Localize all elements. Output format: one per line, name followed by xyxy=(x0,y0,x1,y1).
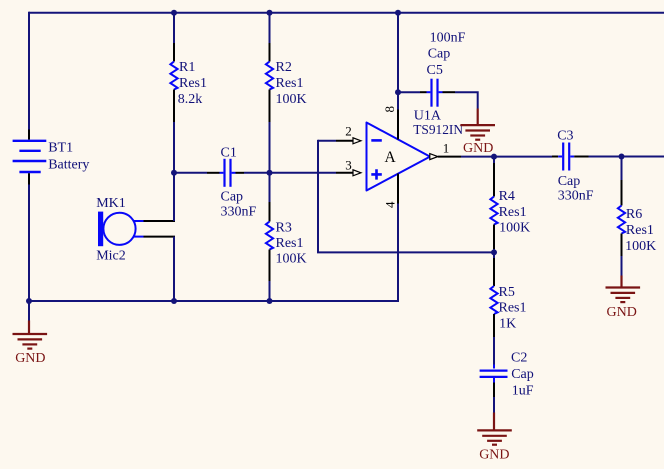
junction node C1 right (R2/R3) xyxy=(267,170,273,176)
wire output xyxy=(461,156,494,158)
svg-text:100K: 100K xyxy=(276,252,307,267)
wire node to right edge xyxy=(622,156,664,158)
wire C1 left xyxy=(174,172,207,174)
svg-text:330nF: 330nF xyxy=(558,189,594,204)
svg-text:R2: R2 xyxy=(276,60,292,75)
ground GND (battery, bottom-left) xyxy=(13,321,48,367)
pin 4 (V-) xyxy=(382,174,398,209)
resistor R4 xyxy=(490,163,497,249)
resistor R1 xyxy=(170,43,177,122)
svg-text:8.2k: 8.2k xyxy=(178,92,203,107)
wire pin3 from C1 node xyxy=(270,172,337,174)
svg-text:R6: R6 xyxy=(626,207,642,222)
junction top bus / pin8 xyxy=(395,10,401,16)
battery BT1 plates xyxy=(13,141,47,172)
junction R4 / R5 / feedback xyxy=(491,249,497,255)
junction top bus / R2 xyxy=(267,10,273,16)
wire left vertical lower xyxy=(28,185,30,321)
svg-text:330nF: 330nF xyxy=(221,204,257,219)
svg-text:A: A xyxy=(385,149,397,166)
junction pin8 / C5 xyxy=(395,89,401,95)
svg-text:GND: GND xyxy=(607,305,637,320)
capacitor C3 xyxy=(552,143,589,171)
svg-text:1: 1 xyxy=(443,140,450,155)
svg-text:100K: 100K xyxy=(276,92,307,107)
svg-text:Res1: Res1 xyxy=(276,76,304,91)
svg-text:R3: R3 xyxy=(276,221,292,236)
wire C2 to GND xyxy=(493,397,495,413)
resistor R3 xyxy=(266,202,273,281)
svg-text:GND: GND xyxy=(15,351,45,366)
svg-text:R5: R5 xyxy=(499,285,515,300)
wire C5 to GND corner xyxy=(455,91,478,108)
wire output to C3 xyxy=(494,156,552,158)
wire mic top to C1 node xyxy=(173,173,175,221)
svg-text:1uF: 1uF xyxy=(512,383,534,398)
svg-text:C5: C5 xyxy=(427,63,443,78)
battery BT1 pin top xyxy=(28,130,30,140)
svg-text:Cap: Cap xyxy=(511,367,534,382)
ground GND (C5) xyxy=(460,109,495,157)
junction bottom bus / R3 xyxy=(267,298,273,304)
wire R3 bottom xyxy=(269,281,271,301)
svg-text:Res1: Res1 xyxy=(626,223,654,238)
svg-text:R1: R1 xyxy=(179,60,195,75)
junction C3 / R6 node xyxy=(619,154,625,160)
resistor R6 xyxy=(618,180,625,256)
svg-text:C2: C2 xyxy=(511,350,527,365)
svg-text:Res1: Res1 xyxy=(499,301,527,316)
svg-text:Res1: Res1 xyxy=(179,76,207,91)
svg-text:1K: 1K xyxy=(499,317,516,332)
wire feedback horizontal xyxy=(317,251,494,253)
junction bottom bus / battery GND xyxy=(26,298,32,304)
svg-text:3: 3 xyxy=(345,158,352,173)
wire pin8 to top bus xyxy=(397,12,399,110)
pin 3 (non-inverting input) xyxy=(336,158,361,176)
svg-text:BT1: BT1 xyxy=(48,140,73,155)
svg-text:Cap: Cap xyxy=(221,190,244,205)
resistor R5 xyxy=(490,258,497,337)
svg-text:8: 8 xyxy=(382,106,397,113)
ground GND (C2) xyxy=(477,413,512,463)
svg-text:100K: 100K xyxy=(625,239,656,254)
wire mic bottom to bus xyxy=(173,237,175,301)
wire pin2 stub xyxy=(318,140,336,142)
svg-text:C3: C3 xyxy=(557,128,573,143)
pin 2 (inverting input) xyxy=(336,123,361,144)
svg-text:4: 4 xyxy=(382,201,397,208)
wire R5 top xyxy=(493,252,495,258)
svg-text:2: 2 xyxy=(345,123,352,138)
junction output node (R4/C3) xyxy=(491,154,497,160)
wire R4 bottom xyxy=(493,249,495,252)
resistor R2 xyxy=(266,43,273,122)
junction top bus / R1 xyxy=(171,10,177,16)
svg-text:Cap: Cap xyxy=(558,174,581,189)
wire R3 top xyxy=(269,173,271,202)
wire top bus xyxy=(29,12,664,14)
svg-text:100nF: 100nF xyxy=(430,31,466,46)
wire bottom bus xyxy=(29,300,398,302)
pin 1 (output) xyxy=(430,140,461,159)
ground GND (R6) xyxy=(606,276,641,320)
wire R6 top xyxy=(621,157,623,181)
wire R1 bottom xyxy=(173,122,175,173)
svg-text:R4: R4 xyxy=(499,189,515,204)
svg-text:Res1: Res1 xyxy=(276,236,304,251)
svg-text:Battery: Battery xyxy=(48,158,89,173)
pin 8 (V+) xyxy=(382,106,398,140)
wire C3 to node xyxy=(589,156,622,158)
svg-text:Mic2: Mic2 xyxy=(96,249,126,264)
capacitor C1 xyxy=(207,159,244,187)
wire pin4 down to bus xyxy=(397,204,399,303)
wire left vertical upper (battery branch) xyxy=(28,12,30,130)
junction node C1 left (R1/mic) xyxy=(171,170,177,176)
wire R5 to C2 xyxy=(493,337,495,365)
wire R2 bottom xyxy=(269,122,271,173)
junction bottom bus / mic xyxy=(171,298,177,304)
svg-text:Cap: Cap xyxy=(428,46,451,61)
svg-text:C1: C1 xyxy=(221,146,237,161)
wire R1 top xyxy=(173,12,175,43)
wire R6 to GND xyxy=(621,256,623,276)
wire feedback vertical xyxy=(317,140,319,253)
svg-text:TS912IN: TS912IN xyxy=(413,122,463,137)
battery BT1 pin bottom xyxy=(28,173,30,184)
op-amp U1A xyxy=(367,123,431,191)
capacitor C5 xyxy=(398,79,455,107)
microphone MK1 xyxy=(98,212,175,247)
wire R2 top xyxy=(269,12,271,43)
svg-text:MK1: MK1 xyxy=(96,196,126,211)
svg-text:100K: 100K xyxy=(499,221,530,236)
wire R4 top xyxy=(493,157,495,163)
capacitor C2 xyxy=(480,365,508,398)
svg-text:Res1: Res1 xyxy=(499,205,527,220)
wire C1 right xyxy=(244,172,270,174)
svg-text:GND: GND xyxy=(479,448,509,463)
svg-text:GND: GND xyxy=(463,141,493,156)
